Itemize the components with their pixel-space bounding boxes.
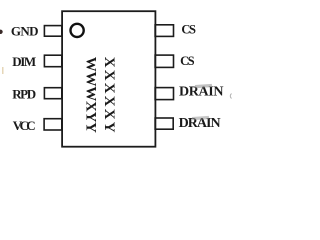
IC package body U1 [62, 11, 155, 147]
pin 4 VCC [44, 119, 62, 130]
smudge over DRAIN pin5 [192, 116, 209, 120]
artifact tick left edge [2, 67, 3, 74]
pin 5 DRAIN [155, 118, 173, 129]
svg-text:XXXXXY: XXXXXY [101, 57, 117, 133]
svg-text:RPD: RPD [12, 87, 36, 102]
pin 2 DIM [44, 55, 61, 66]
faint mark right edge [230, 94, 231, 99]
smudge over DRAIN pin6 [195, 84, 212, 88]
pin 6 DRAIN [155, 88, 173, 100]
svg-text:CS: CS [180, 54, 195, 68]
svg-text:WWWXYY: WWWXYY [83, 57, 99, 133]
pin 1 GND [44, 26, 61, 37]
svg-text:DIM: DIM [12, 54, 36, 69]
artifact dot left edge [0, 30, 3, 34]
svg-text:VCC: VCC [13, 118, 36, 133]
pin 3 RPD [44, 88, 61, 99]
svg-text:CS: CS [181, 23, 196, 37]
pin 1 indicator circle [71, 24, 84, 37]
pin 7 CS [155, 55, 173, 67]
pin 8 CS [155, 25, 173, 37]
svg-text:GND: GND [11, 24, 39, 39]
